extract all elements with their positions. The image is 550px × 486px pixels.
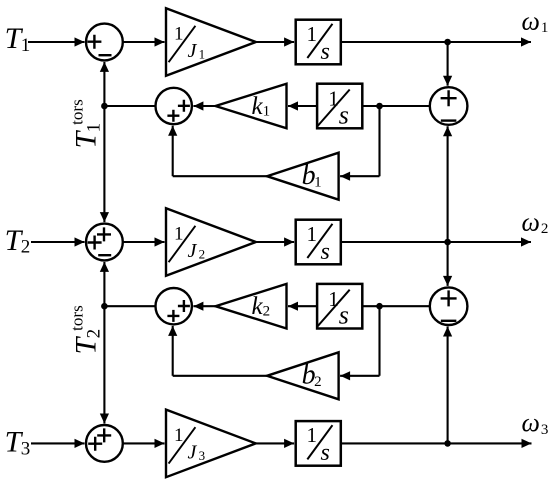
gain block 1/J1	[166, 8, 256, 76]
integrator block 1/s row1	[296, 20, 341, 65]
summing junction S1	[86, 24, 123, 61]
wire b1 to C1 bottom	[168, 126, 267, 177]
integrator block 1/s row3	[296, 220, 341, 265]
svg-text:s: s	[339, 301, 349, 330]
svg-text:1: 1	[174, 223, 184, 244]
wire b-branch row2	[340, 106, 379, 181]
gain block 1/J2	[166, 208, 256, 276]
wire D1 to integrator row2	[362, 105, 430, 107]
svg-text:s: s	[321, 239, 330, 265]
svg-text:T2tors: T2tors	[68, 305, 105, 354]
svg-text:T1tors: T1tors	[68, 99, 105, 148]
gain block k2	[216, 284, 287, 329]
wire T2tors down to S3	[100, 306, 109, 423]
svg-text:T3: T3	[5, 426, 31, 460]
node T2tors	[101, 303, 108, 310]
wire T1 to summing junction S1	[28, 37, 85, 46]
svg-text:1: 1	[307, 22, 318, 46]
wire integrator to omega2 output	[341, 237, 531, 246]
node on omega3 line	[444, 440, 451, 447]
wire omega2 node up to D1	[443, 126, 452, 242]
svg-text:3: 3	[199, 448, 206, 463]
wire b-branch row4	[340, 306, 379, 380]
output label omega1	[522, 6, 549, 36]
integrator block 1/s row2	[317, 84, 362, 130]
svg-text:1: 1	[199, 47, 206, 62]
svg-text:ω1: ω1	[522, 6, 549, 36]
node on omega1 line	[444, 39, 451, 46]
wire k2 to summing junction C2	[193, 302, 215, 311]
svg-text:T1: T1	[5, 22, 31, 56]
svg-text:ω3: ω3	[522, 408, 549, 438]
svg-text:J: J	[188, 442, 198, 464]
svg-text:ω2: ω2	[522, 208, 549, 238]
wire S1 to gain 1/J1	[123, 37, 165, 46]
wire integrator to omega1 output	[341, 37, 531, 46]
wire 1/J3 to integrator	[256, 439, 294, 448]
svg-text:s: s	[321, 440, 330, 466]
wire T3 to summing junction S3	[31, 439, 85, 448]
wire integrator row2 to gain k1	[288, 101, 317, 110]
input torque label T1	[5, 22, 31, 56]
wire S3 to gain 1/J3	[123, 439, 165, 448]
gain block k1	[216, 84, 287, 129]
input torque label T2	[5, 224, 31, 258]
svg-text:s: s	[339, 101, 349, 130]
svg-text:T2: T2	[5, 224, 31, 258]
label T2tors	[68, 305, 105, 354]
wire C2 to T2tors node	[104, 305, 155, 307]
summing junction C2	[156, 288, 192, 324]
svg-text:2: 2	[199, 247, 206, 262]
wire D2 to integrator row4	[362, 305, 430, 307]
wire k1 to summing junction C1	[193, 101, 215, 110]
wire T2tors up to S2	[100, 262, 109, 306]
difference junction D2	[430, 287, 468, 325]
wire omega2 node down to D2	[443, 242, 452, 286]
input torque label T3	[5, 426, 31, 460]
integrator block 1/s row4	[317, 284, 362, 330]
wire C1 to T1tors node	[104, 105, 155, 107]
wire S2 to gain 1/J2	[123, 237, 165, 246]
wire T1tors down to S2	[100, 106, 109, 222]
output label omega3	[522, 408, 549, 438]
wire integrator row4 to gain k2	[288, 302, 317, 311]
output label omega2	[522, 208, 549, 238]
svg-text:s: s	[321, 39, 330, 65]
wire b2 to C2 bottom	[168, 326, 267, 376]
node on D1 output	[376, 103, 383, 110]
gain block 1/J3	[166, 410, 256, 478]
wire 1/J1 to integrator	[256, 37, 294, 46]
svg-text:1: 1	[307, 423, 318, 447]
summing junction S2	[86, 224, 123, 261]
svg-text:1: 1	[307, 222, 318, 246]
summing junction S3	[86, 425, 123, 462]
damping gain block b1	[267, 153, 339, 200]
integrator block 1/s row5	[296, 421, 341, 466]
wire omega3 node up to D2	[443, 327, 452, 444]
wire integrator to omega3 output	[341, 439, 532, 448]
node on D2 output	[376, 303, 383, 310]
difference junction D1	[430, 87, 468, 125]
svg-text:1: 1	[174, 23, 184, 44]
summing junction C1	[156, 88, 192, 124]
svg-text:J: J	[188, 240, 198, 262]
node T1tors	[101, 103, 108, 110]
node on omega2 line	[444, 239, 451, 246]
wire omega1 node down to D1	[443, 42, 452, 86]
wire 1/J2 to integrator	[256, 237, 294, 246]
wire T2 to summing junction S2	[31, 237, 85, 246]
svg-text:1: 1	[174, 425, 184, 446]
damping gain block b2	[267, 352, 339, 399]
label T1tors	[68, 99, 105, 148]
svg-text:J: J	[188, 40, 198, 62]
wire T1tors up to S1	[100, 62, 109, 106]
